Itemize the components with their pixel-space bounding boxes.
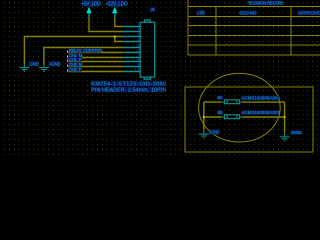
wire B5 left	[204, 116, 221, 118]
label B5	[217, 110, 223, 115]
wire +12V_LDO to J1 pin1	[115, 18, 124, 27]
svg-text:ECO NO:: ECO NO:	[239, 11, 257, 16]
svg-text:KM254-1-ST125-10G-3060: KM254-1-ST125-10G-3060	[91, 82, 166, 88]
svg-text:+5V_LDO: +5V_LDO	[81, 2, 101, 8]
connector J1 body	[140, 20, 154, 79]
ferrite bead B1	[221, 100, 243, 104]
wire GND to J1 pin3	[24, 37, 123, 65]
svg-text:AGND: AGND	[48, 61, 61, 66]
svg-text:B1: B1	[218, 95, 224, 100]
svg-text:4: 4	[137, 37, 140, 42]
highlight ellipse	[199, 73, 281, 142]
svg-text:CH2_P: CH2_P	[69, 67, 82, 72]
svg-text:AGND: AGND	[290, 130, 302, 135]
junction B5 left	[203, 116, 205, 118]
label AGND (block)	[290, 130, 302, 135]
J1 pin stubs 1-10	[123, 27, 140, 72]
table title REVISION RECORD	[247, 1, 284, 6]
label SGND	[208, 130, 219, 135]
ground SGND	[199, 129, 209, 138]
ground AGND (block)	[280, 133, 290, 140]
wire B5 right	[243, 116, 285, 118]
svg-text:ACMS160808A000: ACMS160808A000	[241, 110, 280, 115]
wire B1 left	[204, 101, 221, 103]
svg-text:APPROVED: APPROVED	[298, 11, 320, 16]
ferrite bead B5	[221, 115, 243, 119]
svg-text:10: 10	[134, 67, 140, 72]
svg-text:REVISION RECORD: REVISION RECORD	[247, 1, 284, 6]
ground AGND	[39, 65, 49, 72]
svg-text:J1: J1	[150, 7, 155, 12]
svg-text:+12V_LDO: +12V_LDO	[105, 2, 128, 8]
wire AGND to J1 pin5	[44, 48, 124, 65]
power +12V_LDO	[105, 1, 128, 18]
revision record table	[188, 0, 320, 55]
net CH2_P wire to pin10	[68, 67, 124, 72]
wire +5V_LDO to J1 pin2	[89, 18, 123, 32]
value ACMS160808A000 (B1)	[241, 96, 281, 101]
svg-text:ACMS160808A000: ACMS160808A000	[241, 96, 280, 101]
wire B1 right	[243, 101, 285, 103]
table header ECO NO:	[239, 11, 257, 16]
junction pin3/pin4	[114, 35, 116, 37]
net CH1_P wire to pin8	[68, 57, 124, 62]
label AGND	[48, 61, 61, 66]
power +5V_LDO	[81, 1, 101, 18]
svg-text:B5: B5	[218, 110, 224, 115]
net CH2_M wire to pin9	[68, 62, 124, 67]
J1 pin numbers 1-10	[134, 22, 140, 72]
wire right vertical to AGND	[284, 102, 286, 133]
net RELAY_CONTROL wire to pin6	[68, 48, 124, 53]
table header LTR	[197, 11, 206, 16]
svg-text:SGND: SGND	[208, 130, 219, 135]
value ACMS160808A000 (B5)	[241, 110, 281, 115]
filter block border	[185, 87, 313, 152]
label J1	[150, 7, 155, 12]
table header APPROVED	[298, 11, 320, 16]
net CH1_M wire to pin7	[68, 53, 124, 58]
svg-text:LTR: LTR	[197, 11, 204, 16]
label B1	[217, 95, 223, 100]
wire branch to J1 pin4	[115, 37, 124, 42]
label GND	[29, 61, 39, 66]
junction B5 right	[284, 116, 286, 118]
svg-text:GND: GND	[29, 61, 39, 66]
svg-text:PIN HEADER, 2.54mm, 10PIN: PIN HEADER, 2.54mm, 10PIN	[91, 88, 166, 94]
ground GND	[19, 65, 29, 72]
wire left vertical to SGND	[203, 102, 205, 129]
J1 part number text	[91, 81, 166, 93]
